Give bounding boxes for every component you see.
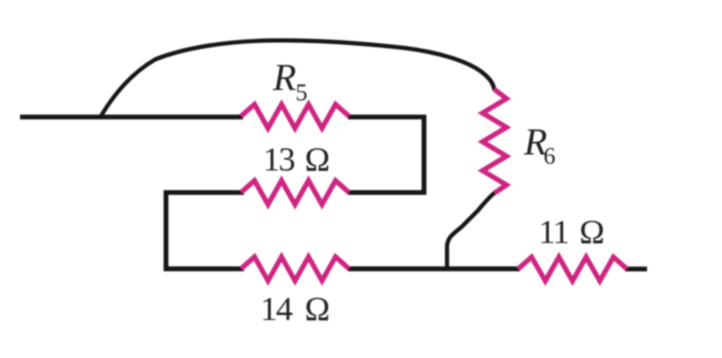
- svg-text:13: 13: [263, 142, 295, 179]
- svg-text:Ω: Ω: [305, 142, 330, 179]
- svg-text:Ω: Ω: [579, 214, 604, 251]
- svg-text:R: R: [272, 57, 296, 99]
- svg-text:11: 11: [539, 214, 569, 251]
- svg-text:6: 6: [544, 144, 556, 170]
- svg-text:14: 14: [260, 291, 293, 328]
- svg-text:5: 5: [296, 81, 308, 107]
- svg-text:Ω: Ω: [305, 291, 330, 328]
